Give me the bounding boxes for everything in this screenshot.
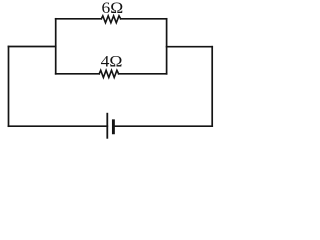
battery B1 positive plate xyxy=(106,114,108,138)
resistor R2 4ohm zigzag xyxy=(99,70,118,77)
wire top branch right segment xyxy=(121,18,167,20)
wire inner left vertical xyxy=(55,19,57,74)
svg-text:6Ω: 6Ω xyxy=(102,0,124,17)
wire bottom left segment xyxy=(9,125,108,127)
resistor R1 6ohm zigzag xyxy=(101,16,120,23)
wire outer right vertical xyxy=(211,47,213,127)
wire bottom branch left segment xyxy=(56,73,99,75)
wire right connector xyxy=(167,46,213,48)
battery B1 negative plate xyxy=(112,121,115,133)
wire bottom branch right segment xyxy=(119,73,167,75)
svg-text:4Ω: 4Ω xyxy=(101,54,123,71)
wire left connector xyxy=(9,46,56,48)
wire outer left vertical xyxy=(8,47,10,127)
wire inner right vertical xyxy=(166,19,168,74)
wire bottom right segment xyxy=(115,125,213,127)
wire top branch left segment xyxy=(56,18,102,20)
